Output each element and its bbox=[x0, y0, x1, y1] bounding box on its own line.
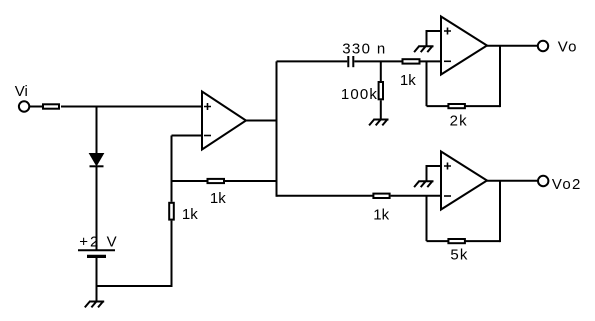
wire bbox=[426, 30, 428, 46]
wire bbox=[171, 221, 173, 287]
resistor R7 1k (to U3) bbox=[373, 194, 389, 198]
resistor R2 1k (vertical) bbox=[169, 203, 174, 220]
ground bbox=[369, 120, 388, 126]
ground bbox=[85, 302, 104, 308]
wire bbox=[427, 240, 501, 242]
wire bbox=[499, 181, 501, 242]
wire bbox=[391, 195, 441, 197]
capacitor C1 330n bbox=[348, 56, 353, 67]
wire bbox=[380, 61, 382, 82]
resistor R1 (series input) bbox=[43, 104, 59, 108]
resistor R8 5k (feedback U3) bbox=[448, 239, 465, 243]
op-amp U1 bbox=[202, 92, 246, 150]
wire bbox=[171, 180, 173, 202]
wire bbox=[499, 46, 501, 107]
svg-text:1k: 1k bbox=[210, 190, 226, 207]
ground bbox=[414, 46, 433, 52]
wire bbox=[421, 60, 442, 62]
wire bbox=[427, 30, 442, 32]
wire bbox=[426, 165, 428, 181]
svg-text:+2 V: +2 V bbox=[79, 233, 117, 250]
svg-text:5k: 5k bbox=[450, 247, 468, 264]
wire bbox=[426, 196, 428, 241]
wire bbox=[354, 60, 402, 62]
wire bbox=[276, 61, 278, 196]
svg-text:1k: 1k bbox=[400, 72, 416, 89]
wire bbox=[29, 106, 43, 108]
wire bbox=[61, 106, 202, 108]
resistor R4 100k bbox=[379, 82, 383, 99]
wire bbox=[96, 258, 98, 302]
wire bbox=[96, 166, 98, 250]
wire bbox=[172, 180, 277, 182]
wire bbox=[487, 45, 538, 47]
wire bbox=[172, 135, 203, 137]
terminal Vo2 bbox=[538, 176, 548, 186]
wire bbox=[277, 195, 374, 197]
svg-text:330 n: 330 n bbox=[342, 40, 385, 57]
svg-text:2k: 2k bbox=[450, 113, 468, 130]
wire bbox=[97, 285, 172, 287]
svg-text:Vo2: Vo2 bbox=[552, 176, 581, 193]
op-amp U2 bbox=[441, 17, 487, 75]
wire bbox=[171, 136, 173, 183]
wire bbox=[277, 60, 348, 62]
battery +2 V bbox=[78, 250, 115, 256]
wire bbox=[380, 100, 382, 119]
wire bbox=[96, 107, 98, 155]
wire bbox=[246, 120, 278, 122]
svg-text:1k: 1k bbox=[373, 206, 389, 223]
svg-text:1k: 1k bbox=[182, 206, 198, 223]
wire bbox=[426, 61, 428, 106]
svg-text:Vo: Vo bbox=[558, 38, 577, 55]
resistor R6 2k (feedback U2) bbox=[448, 104, 465, 108]
resistor R5 1k (to U2) bbox=[403, 59, 420, 63]
svg-text:100k: 100k bbox=[341, 86, 378, 103]
wire bbox=[427, 165, 442, 167]
terminal Vo bbox=[538, 41, 548, 51]
op-amp U3 bbox=[441, 152, 487, 210]
resistor R3 1k (feedback U1) bbox=[208, 179, 225, 183]
svg-text:Vi: Vi bbox=[15, 83, 28, 100]
wire bbox=[487, 180, 538, 182]
diode D1 bbox=[90, 154, 104, 167]
ground bbox=[414, 181, 433, 187]
wire bbox=[427, 105, 501, 107]
terminal Vi bbox=[19, 101, 29, 111]
